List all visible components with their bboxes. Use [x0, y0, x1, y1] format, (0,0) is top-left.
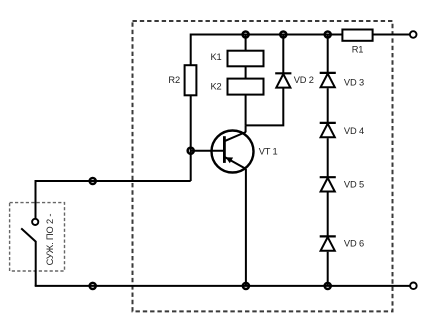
svg-text:VT 1: VT 1 — [259, 147, 278, 157]
label VD 3 — [344, 77, 364, 87]
diode VD2 — [275, 73, 291, 87]
wire VD6 lower lead — [327, 252, 329, 286]
wire R2 branch vertical — [190, 34, 192, 182]
node bottom left connection — [90, 283, 96, 289]
node left upper connection — [90, 178, 96, 184]
node top rail K branch — [243, 31, 249, 37]
label VD 4 — [344, 126, 364, 136]
diode VD6 — [320, 236, 336, 250]
svg-text:VD 2: VD 2 — [294, 75, 314, 85]
resistor R1 — [342, 30, 372, 41]
label VD 6 — [344, 238, 364, 248]
diode VD5 — [320, 177, 336, 191]
svg-text:VD 4: VD 4 — [344, 126, 364, 136]
wire emitter to bottom rail — [245, 169, 247, 286]
svg-text:СУЖ. ПО 2 -: СУЖ. ПО 2 - — [45, 214, 55, 266]
wire base — [191, 150, 225, 152]
label R1 — [352, 45, 364, 55]
transistor VT1 — [212, 131, 254, 173]
relay coil K1 — [228, 51, 264, 67]
svg-text:R2: R2 — [168, 75, 180, 85]
wire switch lower lead — [35, 241, 37, 286]
node top rail VD chain branch — [325, 31, 331, 37]
wire VD4-VD5 — [327, 138, 329, 177]
relay coil K2 — [228, 79, 264, 95]
wire left horizontal to switch — [36, 180, 191, 182]
enclosure dashed border — [133, 21, 393, 311]
wire VD5-VD6 — [327, 193, 329, 237]
node emitter bottom junction — [243, 283, 249, 289]
svg-text:VD 6: VD 6 — [344, 238, 364, 248]
label VT 1 — [259, 147, 278, 157]
label K1 — [211, 52, 222, 62]
wire relay branch — [245, 35, 247, 126]
svg-text:R1: R1 — [352, 45, 364, 55]
wire switch upper lead — [35, 180, 37, 219]
terminal bottom right — [410, 283, 417, 290]
wire top rail — [191, 34, 410, 36]
label VD 5 — [344, 179, 364, 189]
diode VD3 — [320, 73, 336, 87]
label R2 — [168, 75, 180, 85]
svg-text:VD 3: VD 3 — [344, 77, 364, 87]
wire VD2 upper lead — [282, 35, 284, 74]
wire bottom rail — [35, 285, 410, 287]
switch contact circle — [32, 219, 38, 225]
wire VD3 upper lead — [327, 35, 329, 73]
label СУЖ. ПО 2 - — [45, 214, 55, 266]
svg-text:VD 5: VD 5 — [344, 179, 364, 189]
switch unit dashed box — [10, 203, 65, 271]
switch blade — [21, 228, 36, 241]
node top rail VD2 branch — [280, 31, 286, 37]
node base junction — [188, 148, 194, 154]
wire VD3-VD4 — [327, 88, 329, 123]
label K2 — [211, 82, 222, 92]
label VD 2 — [294, 75, 314, 85]
diode VD4 — [320, 123, 336, 137]
wire collector branch to VD2 — [246, 88, 284, 132]
terminal top right — [410, 31, 417, 38]
resistor R2 — [185, 65, 197, 95]
svg-text:K2: K2 — [211, 82, 222, 92]
node bottom rail VD chain junction — [325, 283, 331, 289]
svg-text:K1: K1 — [211, 52, 222, 62]
